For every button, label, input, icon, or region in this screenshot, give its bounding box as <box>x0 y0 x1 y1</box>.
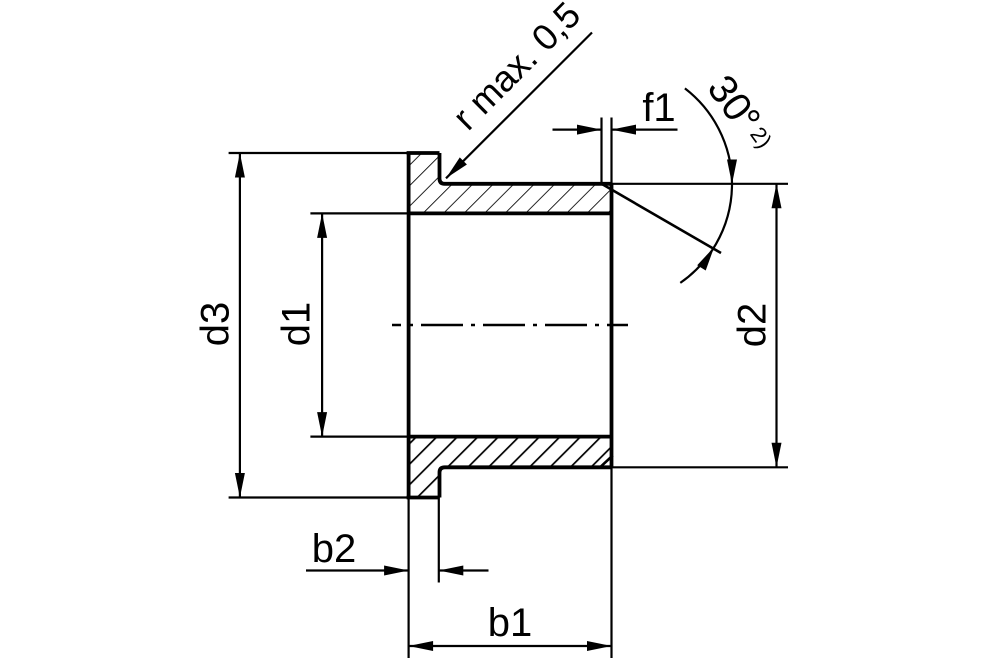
svg-text:d2: d2 <box>731 303 775 348</box>
svg-text:b1: b1 <box>488 601 533 645</box>
svg-text:f1: f1 <box>642 86 675 130</box>
svg-text:d1: d1 <box>275 302 319 347</box>
svg-text:d3: d3 <box>194 302 238 347</box>
svg-text:b2: b2 <box>312 527 357 571</box>
